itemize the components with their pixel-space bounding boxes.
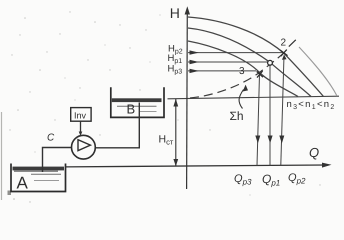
svg-text:Σh: Σh [230,109,244,123]
svg-text:A: A [17,174,29,193]
svg-text:H: H [170,5,180,21]
svg-text:B: B [127,102,136,117]
svg-text:Inv: Inv [74,110,87,120]
svg-text:Q: Q [309,145,319,160]
svg-text:3: 3 [239,66,245,77]
svg-text:C: C [47,133,55,144]
svg-text:2: 2 [281,38,287,49]
